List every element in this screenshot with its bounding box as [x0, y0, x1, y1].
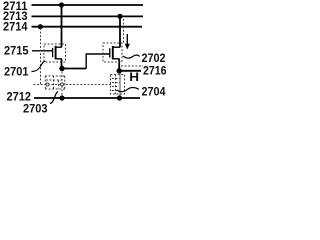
svg-text:2704: 2704	[142, 85, 166, 99]
svg-text:2716: 2716	[143, 64, 166, 78]
svg-text:2715: 2715	[4, 43, 29, 57]
svg-text:H: H	[129, 70, 139, 84]
svg-text:2714: 2714	[3, 19, 28, 33]
svg-text:2703: 2703	[23, 101, 48, 115]
svg-text:2701: 2701	[4, 65, 29, 79]
